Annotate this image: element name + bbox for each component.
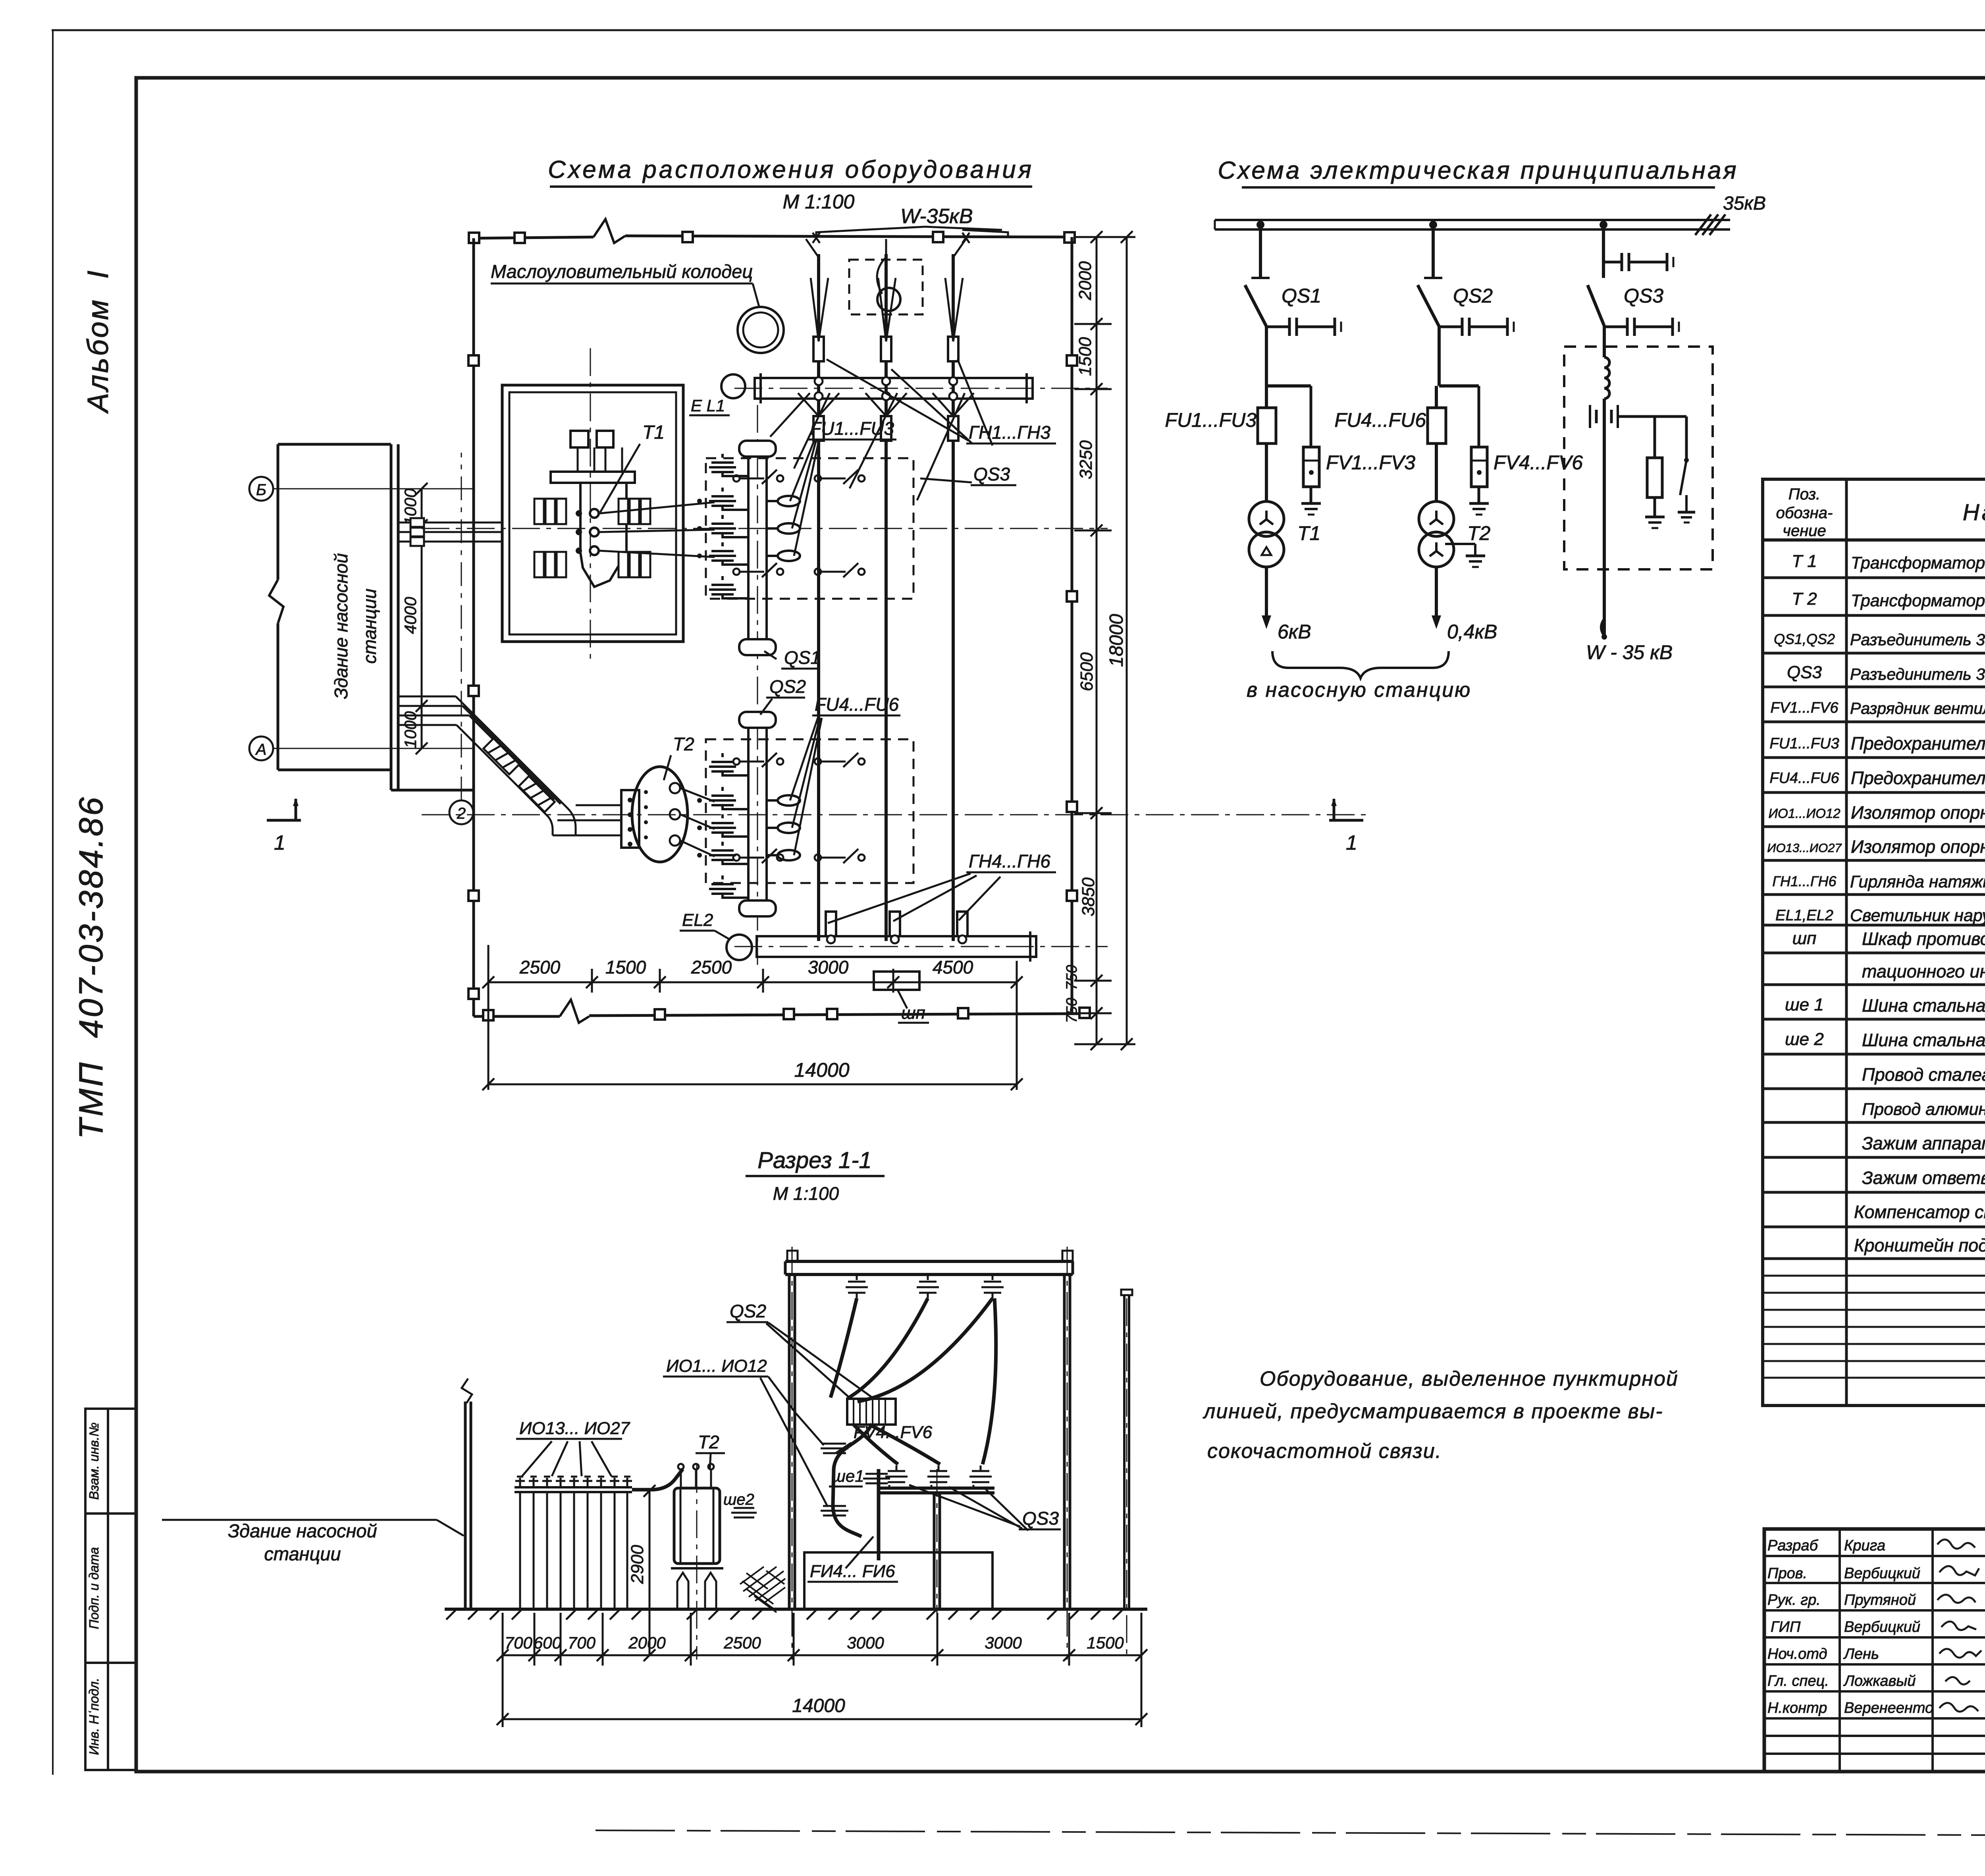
svg-text:750: 750: [1064, 998, 1080, 1023]
svg-text:3250: 3250: [1076, 440, 1096, 479]
svg-text:18000: 18000: [1106, 614, 1127, 667]
svg-text:ше 2: ше 2: [1785, 1030, 1824, 1049]
svg-text:Маслоуловительный колодец: Маслоуловительный колодец: [491, 261, 753, 282]
svg-text:Т1: Т1: [1297, 522, 1320, 544]
svg-text:Крига: Крига: [1844, 1537, 1885, 1554]
svg-text:Т 2: Т 2: [1792, 589, 1817, 609]
svg-text:Шина стальная: Шина стальная: [1862, 1030, 1985, 1050]
svg-text:600: 600: [534, 1633, 562, 1652]
svg-text:Т1: Т1: [642, 422, 665, 443]
svg-text:Изолятор опорный штыревой ОН: Изолятор опорный штыревой ОНШ-6-300: [1851, 837, 1985, 857]
svg-text:1000: 1000: [401, 711, 420, 748]
svg-text:Вербицкий: Вербицкий: [1844, 1565, 1920, 1582]
svg-text:Вербицкий: Вербицкий: [1844, 1619, 1920, 1635]
svg-text:Лень: Лень: [1843, 1646, 1879, 1662]
svg-text:Разъединитель 3-х полюсный РДЗ: Разъединитель 3-х полюсный РДЗ1б-35/1000…: [1850, 630, 1985, 649]
svg-text:W - 35 кВ: W - 35 кВ: [1586, 641, 1673, 663]
svg-text:Предохранитель стреляющий ПС-: Предохранитель стреляющий ПС-35МУ1: [1851, 768, 1985, 788]
svg-text:Зажим ответвительный ОА-50: Зажим ответвительный ОА-50: [1862, 1168, 1985, 1188]
svg-text:Т2: Т2: [698, 1432, 719, 1452]
svg-text:ше 1: ше 1: [1785, 995, 1824, 1014]
svg-text:ИО13...ИО27: ИО13...ИО27: [1767, 841, 1842, 855]
svg-text:QS1: QS1: [1282, 285, 1321, 307]
svg-text:700: 700: [568, 1633, 596, 1652]
svg-text:14000: 14000: [794, 1059, 849, 1081]
svg-text:ГИП: ГИП: [1771, 1619, 1801, 1635]
svg-text:ше1: ше1: [832, 1467, 864, 1485]
svg-text:Гирлянда натяжная из 4 изолят: Гирлянда натяжная из 4 изоляторов ПСН70-…: [1850, 872, 1985, 891]
svg-text:Разрез 1-1: Разрез 1-1: [757, 1147, 871, 1173]
svg-text:шп: шп: [1792, 929, 1817, 948]
svg-text:в насосную станцию: в насосную станцию: [1247, 679, 1471, 702]
svg-text:EL1,EL2: EL1,EL2: [1775, 907, 1833, 924]
svg-text:1500: 1500: [1087, 1633, 1124, 1652]
svg-text:Веренеенто: Веренеенто: [1844, 1700, 1933, 1716]
svg-text:Н.контр: Н.контр: [1767, 1700, 1827, 1716]
svg-text:Провод алюминиевый изолирован: Провод алюминиевый изолирован АПВ-500: [1862, 1100, 1985, 1119]
svg-text:Ложкавый: Ложкавый: [1843, 1673, 1916, 1689]
svg-text:тационного инвентаря: тационного инвентаря: [1862, 961, 1985, 981]
svg-text:Т 1: Т 1: [1792, 551, 1817, 571]
svg-text:6кВ: 6кВ: [1278, 621, 1311, 643]
svg-text:Инв. Нʿподл.: Инв. Нʿподл.: [87, 1678, 101, 1755]
svg-text:1: 1: [274, 831, 285, 854]
svg-text:QS1: QS1: [784, 647, 821, 668]
svg-text:сокочастотной связи.: сокочастотной связи.: [1207, 1440, 1442, 1463]
svg-text:станции: станции: [264, 1543, 341, 1564]
svg-text:FV4...FV6: FV4...FV6: [854, 1423, 933, 1442]
svg-text:W-35кВ: W-35кВ: [900, 205, 973, 228]
svg-text:Оборудование, выделенное пунк: Оборудование, выделенное пунктирной: [1260, 1367, 1679, 1390]
svg-text:1: 1: [1346, 831, 1357, 854]
svg-text:Поз.: Поз.: [1788, 486, 1821, 503]
svg-text:QS1,QS2: QS1,QS2: [1774, 631, 1835, 647]
svg-text:14000: 14000: [792, 1695, 845, 1716]
svg-text:Трансформатор силовой 3-х фазн: Трансформатор силовой 3-х фазный ТМ-1600…: [1851, 553, 1985, 573]
svg-text:2900: 2900: [628, 1545, 647, 1584]
svg-text:Предохранитель стреляющий ПС-: Предохранитель стреляющий ПС-35МУ1: [1851, 733, 1985, 754]
svg-text:Разъединитель 3-х полюсный РД3: Разъединитель 3-х полюсный РД32-35/1000 …: [1850, 665, 1985, 683]
svg-text:3000: 3000: [808, 957, 849, 978]
svg-text:QS3: QS3: [1787, 663, 1822, 682]
svg-text:35кВ: 35кВ: [1723, 193, 1766, 214]
svg-text:Зажим аппаратный А4А-50-2: Зажим аппаратный А4А-50-2: [1862, 1133, 1985, 1153]
svg-text:FU1...FU3: FU1...FU3: [810, 418, 894, 439]
svg-text:Изолятор опорный стержневой: Изолятор опорный стержневой ИОС-35-500: [1851, 802, 1985, 823]
svg-text:FU4...FU6: FU4...FU6: [1334, 409, 1426, 431]
svg-text:4500: 4500: [933, 957, 973, 978]
svg-text:Наименование: Наименование: [1963, 499, 1985, 525]
svg-text:1500: 1500: [1075, 337, 1095, 376]
svg-text:Светильник наружной установки: Светильник наружной установки СПО-2-200: [1850, 906, 1985, 925]
svg-text:Провод сталеалюминиевый А,С-: Провод сталеалюминиевый А,С-70: [1862, 1064, 1985, 1085]
svg-text:Т2: Т2: [673, 734, 694, 754]
svg-text:QS3: QS3: [1624, 285, 1663, 307]
svg-text:Компенсатор стороны 35 кВ: Компенсатор стороны 35 кВ: [1854, 1202, 1985, 1222]
svg-text:QS2: QS2: [1453, 285, 1493, 307]
svg-text:4000: 4000: [401, 597, 420, 634]
svg-text:QS3: QS3: [1022, 1508, 1059, 1529]
svg-text:2500: 2500: [519, 957, 561, 978]
svg-text:ИО1...ИО12: ИО1...ИО12: [1768, 806, 1840, 821]
svg-text:Альбом I: Альбом I: [81, 269, 114, 414]
svg-text:Пров.: Пров.: [1767, 1565, 1807, 1582]
svg-text:Рук. гр.: Рук. гр.: [1767, 1592, 1821, 1608]
svg-text:3000: 3000: [985, 1633, 1022, 1652]
svg-text:FV1...FV3: FV1...FV3: [1326, 451, 1415, 474]
svg-text:FИ4... FИ6: FИ4... FИ6: [810, 1562, 895, 1581]
svg-text:ИО1... ИО12: ИО1... ИО12: [666, 1356, 767, 1376]
svg-text:Схема электрическая принципиал: Схема электрическая принципиальная: [1218, 157, 1738, 184]
svg-text:0,4кВ: 0,4кВ: [1447, 621, 1497, 643]
svg-text:FU4...FU6: FU4...FU6: [815, 694, 899, 715]
svg-text:Ноч.отд: Ноч.отд: [1767, 1646, 1827, 1662]
svg-text:3850: 3850: [1079, 877, 1098, 916]
svg-text:FV1...FV6: FV1...FV6: [1770, 700, 1839, 716]
svg-text:Разраб: Разраб: [1767, 1537, 1819, 1554]
svg-text:линией, предусматривается в: линией, предусматривается в проекте вы-: [1203, 1400, 1663, 1423]
svg-text:3000: 3000: [847, 1633, 884, 1652]
svg-text:6500: 6500: [1077, 652, 1097, 691]
svg-text:1500: 1500: [605, 957, 646, 978]
svg-text:ше2: ше2: [723, 1491, 754, 1508]
svg-text:Взам. инв.№: Взам. инв.№: [87, 1423, 101, 1500]
svg-text:ТМП 407-03-384.86: ТМП 407-03-384.86: [72, 795, 110, 1139]
svg-text:2000: 2000: [1075, 261, 1095, 301]
svg-text:ГН1...ГН6: ГН1...ГН6: [1772, 873, 1837, 889]
svg-text:Схема расположения оборудовани: Схема расположения оборудования: [548, 156, 1034, 183]
svg-text:ИО13... ИО27: ИО13... ИО27: [519, 1419, 630, 1438]
svg-text:Здание насосной: Здание насосной: [331, 553, 351, 699]
svg-text:станции: станции: [359, 588, 380, 663]
svg-text:Шкаф противопожарного и экс: Шкаф противопожарного и эксплуа-: [1862, 929, 1985, 949]
svg-text:Здание насосной: Здание насосной: [228, 1520, 377, 1541]
svg-text:Трансформатор силовой 3-х фазн: Трансформатор силовой 3-х фазный ТМ-400/…: [1851, 591, 1985, 610]
svg-text:Т2: Т2: [1467, 522, 1491, 544]
svg-text:750: 750: [1064, 965, 1080, 990]
svg-text:М 1:100: М 1:100: [783, 191, 855, 213]
svg-text:Е L1: Е L1: [691, 396, 725, 415]
svg-text:Подп. и дата: Подп. и дата: [87, 1547, 101, 1629]
svg-text:2000: 2000: [628, 1633, 666, 1652]
svg-text:Прутяной: Прутяной: [1844, 1592, 1916, 1608]
svg-text:FU1...FU3: FU1...FU3: [1769, 735, 1839, 752]
svg-text:чение: чение: [1783, 522, 1826, 540]
svg-text:QS2: QS2: [730, 1301, 766, 1321]
svg-text:Б: Б: [256, 481, 266, 499]
svg-text:FV4...FV6: FV4...FV6: [1494, 451, 1583, 474]
svg-text:шп: шп: [901, 1003, 925, 1023]
svg-text:700: 700: [505, 1633, 533, 1652]
svg-text:Гл. спец.: Гл. спец.: [1767, 1673, 1829, 1689]
svg-text:М 1:100: М 1:100: [773, 1183, 839, 1204]
svg-text:FU1...FU3: FU1...FU3: [1165, 409, 1257, 431]
svg-text:EL2: EL2: [682, 910, 713, 930]
svg-text:FU4...FU6: FU4...FU6: [1769, 770, 1839, 787]
svg-text:Разрядник вентильный РВС-35 с: Разрядник вентильный РВС-35 с регист. ра…: [1850, 699, 1985, 717]
svg-text:2500: 2500: [691, 957, 732, 978]
svg-text:ГН1...ГН3: ГН1...ГН3: [969, 422, 1050, 443]
svg-text:QS2: QS2: [769, 676, 806, 697]
svg-text:Кронштейн под изолятор ОНШ-6-3: Кронштейн под изолятор ОНШ-6-300: [1854, 1235, 1985, 1255]
svg-text:2: 2: [457, 805, 466, 822]
svg-text:QS3: QS3: [973, 464, 1010, 484]
svg-text:Шина стальная: Шина стальная: [1862, 995, 1985, 1016]
svg-text:ГН4...ГН6: ГН4...ГН6: [969, 851, 1050, 871]
svg-text:2500: 2500: [723, 1633, 761, 1652]
svg-text:А: А: [255, 741, 267, 758]
svg-text:обозна-: обозна-: [1776, 504, 1833, 522]
